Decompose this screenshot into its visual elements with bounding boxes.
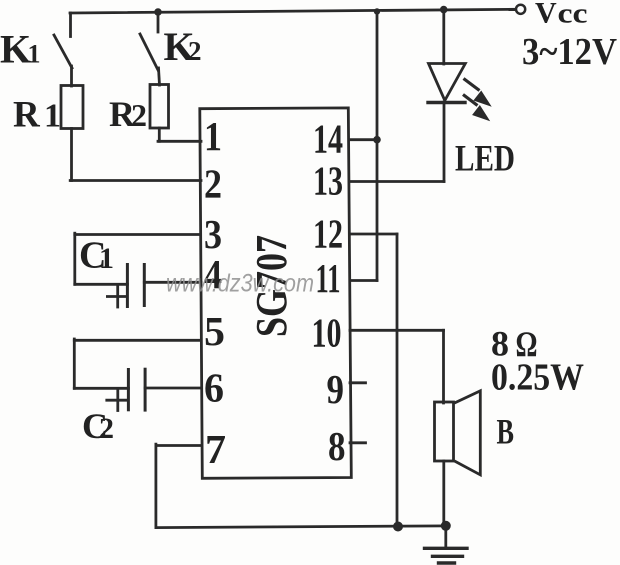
svg-text:R: R [13, 95, 41, 136]
svg-text:2: 2 [188, 36, 202, 66]
svg-text:13: 13 [313, 158, 343, 204]
svg-text:11: 11 [316, 255, 341, 301]
svg-text:2: 2 [99, 412, 114, 445]
svg-text:LED: LED [455, 139, 515, 180]
svg-text:1: 1 [44, 98, 61, 135]
svg-text:1: 1 [28, 40, 41, 69]
svg-text:www.dz3w.com: www.dz3w.com [166, 270, 314, 298]
svg-text:7: 7 [205, 426, 226, 472]
svg-text:1: 1 [99, 242, 114, 275]
svg-text:12: 12 [313, 211, 343, 257]
svg-text:14: 14 [313, 116, 343, 162]
svg-text:8: 8 [328, 423, 346, 469]
svg-text:0.25W: 0.25W [491, 357, 584, 399]
svg-text:B: B [497, 412, 515, 452]
svg-text:5: 5 [204, 308, 225, 354]
svg-text:K: K [0, 27, 31, 72]
svg-text:3~12V: 3~12V [522, 31, 618, 73]
svg-text:6: 6 [204, 365, 224, 411]
svg-text:10: 10 [312, 310, 342, 356]
svg-text:2: 2 [204, 161, 222, 207]
svg-text:1: 1 [204, 113, 222, 159]
svg-text:cc: cc [558, 0, 588, 29]
svg-text:2: 2 [131, 97, 147, 133]
svg-text:9: 9 [327, 366, 345, 412]
svg-text:V: V [535, 0, 557, 29]
